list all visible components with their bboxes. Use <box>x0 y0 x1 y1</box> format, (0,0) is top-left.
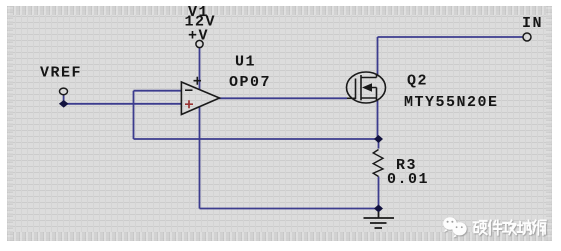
svg-text:Q2: Q2 <box>407 73 428 90</box>
svg-text:U1: U1 <box>235 54 256 71</box>
svg-text:0.01: 0.01 <box>387 171 429 188</box>
svg-text:OP07: OP07 <box>229 74 271 91</box>
svg-text:+V: +V <box>188 28 209 45</box>
svg-text:VREF: VREF <box>40 65 82 82</box>
svg-text:IN: IN <box>522 15 543 32</box>
svg-text:MTY55N20E: MTY55N20E <box>404 94 499 111</box>
